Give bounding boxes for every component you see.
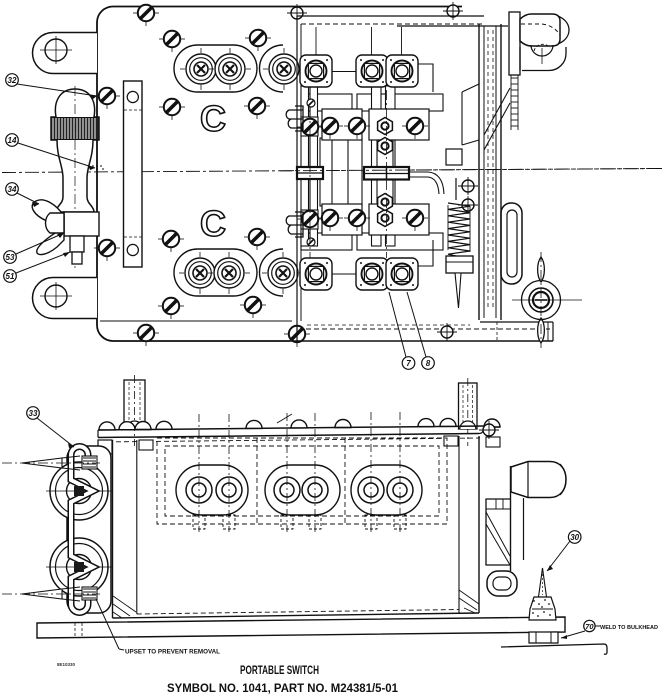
main plate outline bbox=[97, 6, 462, 341]
terminal block lower 1 bbox=[300, 258, 332, 290]
operating handle side view arm bbox=[486, 466, 524, 571]
enclosure box walls bbox=[113, 436, 480, 618]
svg-text:70: 70 bbox=[585, 622, 594, 631]
top rail to knob bbox=[397, 25, 508, 27]
note upset to prevent removal bbox=[96, 599, 220, 656]
contact finger bar upper bbox=[301, 94, 352, 111]
serpentine clamp band bbox=[71, 447, 93, 613]
spring bbox=[448, 178, 470, 256]
weld stud base bbox=[529, 597, 556, 620]
fuse column centerlines bbox=[199, 412, 400, 532]
svg-text:34: 34 bbox=[8, 185, 17, 194]
cotter pin lower bbox=[2, 587, 100, 601]
link wires lower bbox=[332, 240, 433, 274]
svg-text:C: C bbox=[200, 98, 226, 139]
callout 33 bbox=[27, 407, 74, 448]
clamp stud lower hatched bbox=[82, 587, 97, 600]
handle grip side view bbox=[511, 462, 566, 498]
pole B lower block bbox=[369, 204, 429, 235]
clamp stud upper hatched bbox=[82, 456, 97, 469]
terminal pad upper bbox=[174, 45, 257, 92]
crossbar pole A bbox=[297, 167, 323, 179]
callout 51 bbox=[4, 252, 70, 282]
finger bar screws bbox=[307, 99, 315, 107]
left guide post bbox=[124, 375, 145, 446]
pole A contact block bbox=[322, 109, 362, 140]
right partial pad lower with terminal bbox=[260, 249, 305, 296]
svg-text:PORTABLE SWITCH: PORTABLE SWITCH bbox=[240, 663, 319, 677]
rail end bracket left bbox=[98, 440, 112, 454]
pole A vertical centerline bbox=[309, 90, 311, 258]
flower thumb nut bbox=[512, 252, 582, 348]
bottom mounting ear bbox=[33, 278, 98, 319]
svg-text:33: 33 bbox=[29, 409, 38, 418]
svg-text:30: 30 bbox=[570, 533, 579, 542]
svg-text:8: 8 bbox=[426, 359, 431, 368]
crossbar pole B bbox=[364, 167, 409, 180]
handle pin (item 51) bbox=[70, 236, 84, 264]
svg-text:SYMBOL NO. 1041, PART NO. M243: SYMBOL NO. 1041, PART NO. M24381/5-01 bbox=[167, 681, 398, 695]
handle grip (item 32) bbox=[51, 86, 99, 268]
pole A bars bbox=[301, 86, 318, 246]
svg-text:53: 53 bbox=[6, 253, 15, 262]
serrated edge on channel bbox=[511, 75, 518, 130]
callout 34 bbox=[6, 183, 39, 207]
center link strip bbox=[377, 140, 393, 204]
inner bottom line of plate bbox=[100, 320, 292, 322]
nut below plate bbox=[529, 632, 558, 643]
terminal block upper 2 bbox=[356, 55, 388, 87]
pointer pin below spring bbox=[455, 273, 461, 308]
terminal pad lower bbox=[174, 249, 257, 296]
clamp wheel lower bbox=[46, 538, 112, 596]
svg-text:WELD TO BULKHEAD: WELD TO BULKHEAD bbox=[600, 625, 658, 631]
svg-text:C: C bbox=[200, 203, 226, 244]
right guide post bbox=[459, 378, 478, 446]
svg-text:8E10330: 8E10330 bbox=[57, 662, 76, 667]
center mark at handle bbox=[90, 161, 105, 171]
contact finger bar lower bbox=[301, 233, 352, 250]
base plate bbox=[37, 617, 565, 638]
cover top rail bbox=[98, 414, 484, 442]
bottom strip dashed guide bbox=[496, 322, 498, 341]
wing nut (item 34) bbox=[32, 200, 64, 255]
channel diagonals bbox=[462, 84, 510, 150]
weld stud pin (item 30) bbox=[539, 568, 547, 597]
callout 14 bbox=[6, 134, 95, 170]
pole A side strips bbox=[320, 138, 362, 206]
bulkhead line bbox=[501, 644, 607, 654]
corner hatch bottom-left bbox=[113, 596, 136, 618]
clamp square nuts bbox=[74, 486, 84, 496]
callout 32 bbox=[6, 74, 97, 99]
B-bracket upper bbox=[286, 106, 303, 131]
clamp strip frame (item 33) bbox=[67, 446, 111, 613]
callout 53 bbox=[4, 233, 64, 263]
svg-text:14: 14 bbox=[8, 136, 17, 145]
centerline overlay bbox=[280, 169, 662, 171]
slotted guide bar bbox=[124, 81, 143, 267]
fuse block dashed outline bbox=[157, 438, 447, 524]
pole B vertical centerline bbox=[386, 90, 388, 258]
handle base block (item 53) bbox=[64, 212, 99, 236]
terminal block lower 3 bbox=[386, 258, 418, 290]
callout 70 with note bbox=[561, 620, 658, 639]
svg-text:UPSET TO PREVENT REMOVAL: UPSET TO PREVENT REMOVAL bbox=[125, 649, 220, 656]
svg-text:51: 51 bbox=[6, 272, 15, 281]
small screw on bottom strip bbox=[437, 323, 457, 341]
spring retainer block bbox=[446, 256, 473, 273]
panel edge screw blocks bbox=[297, 117, 323, 140]
pole A lower block bbox=[322, 204, 362, 235]
switch panel outline bbox=[290, 16, 553, 342]
operating knob bbox=[520, 14, 569, 71]
pole B contact block bbox=[369, 109, 429, 140]
horizontal center line bbox=[2, 169, 662, 173]
fuse stadium 3 bbox=[351, 465, 422, 515]
svg-text:32: 32 bbox=[8, 76, 17, 85]
clamp wheel upper bbox=[46, 462, 112, 520]
top mounting ear bbox=[33, 33, 98, 74]
spring anchor block bbox=[446, 149, 462, 165]
plate screws bbox=[133, 5, 159, 26]
fuse stadium 1 bbox=[176, 465, 248, 515]
rail nuts below bbox=[139, 440, 153, 450]
callout 7 bbox=[389, 292, 415, 369]
terminal block upper 1 bbox=[300, 55, 332, 87]
D-loop handle top view bbox=[501, 203, 522, 284]
pole B bars bbox=[372, 86, 396, 246]
fastener row upper bbox=[317, 118, 343, 139]
fuse stadium 2 bbox=[265, 465, 340, 515]
callout 8 bbox=[407, 292, 434, 369]
spring anchor screws bbox=[458, 177, 478, 195]
pole column lines bbox=[316, 27, 402, 55]
cover bolt right of box bbox=[479, 421, 499, 439]
link wire to spring bbox=[409, 172, 444, 194]
B-bracket lower bbox=[286, 212, 303, 237]
svg-text:7: 7 bbox=[406, 359, 411, 368]
terminal block upper 3 bbox=[386, 55, 418, 87]
link wires upper bbox=[332, 64, 433, 92]
corner hatch bottom-right bbox=[459, 590, 479, 613]
callout 30 bbox=[547, 531, 581, 571]
terminal block lower 2 bbox=[356, 258, 388, 290]
fuse feet dashed bbox=[193, 515, 406, 529]
right partial pad upper with terminal bbox=[260, 45, 306, 92]
right channel member bbox=[479, 24, 501, 320]
D-loop handle side view bbox=[487, 571, 517, 596]
fastener row lower bbox=[317, 210, 343, 231]
rail bolts bbox=[99, 422, 115, 430]
cotter pin upper bbox=[2, 456, 100, 470]
knob flange plate bbox=[509, 12, 520, 75]
